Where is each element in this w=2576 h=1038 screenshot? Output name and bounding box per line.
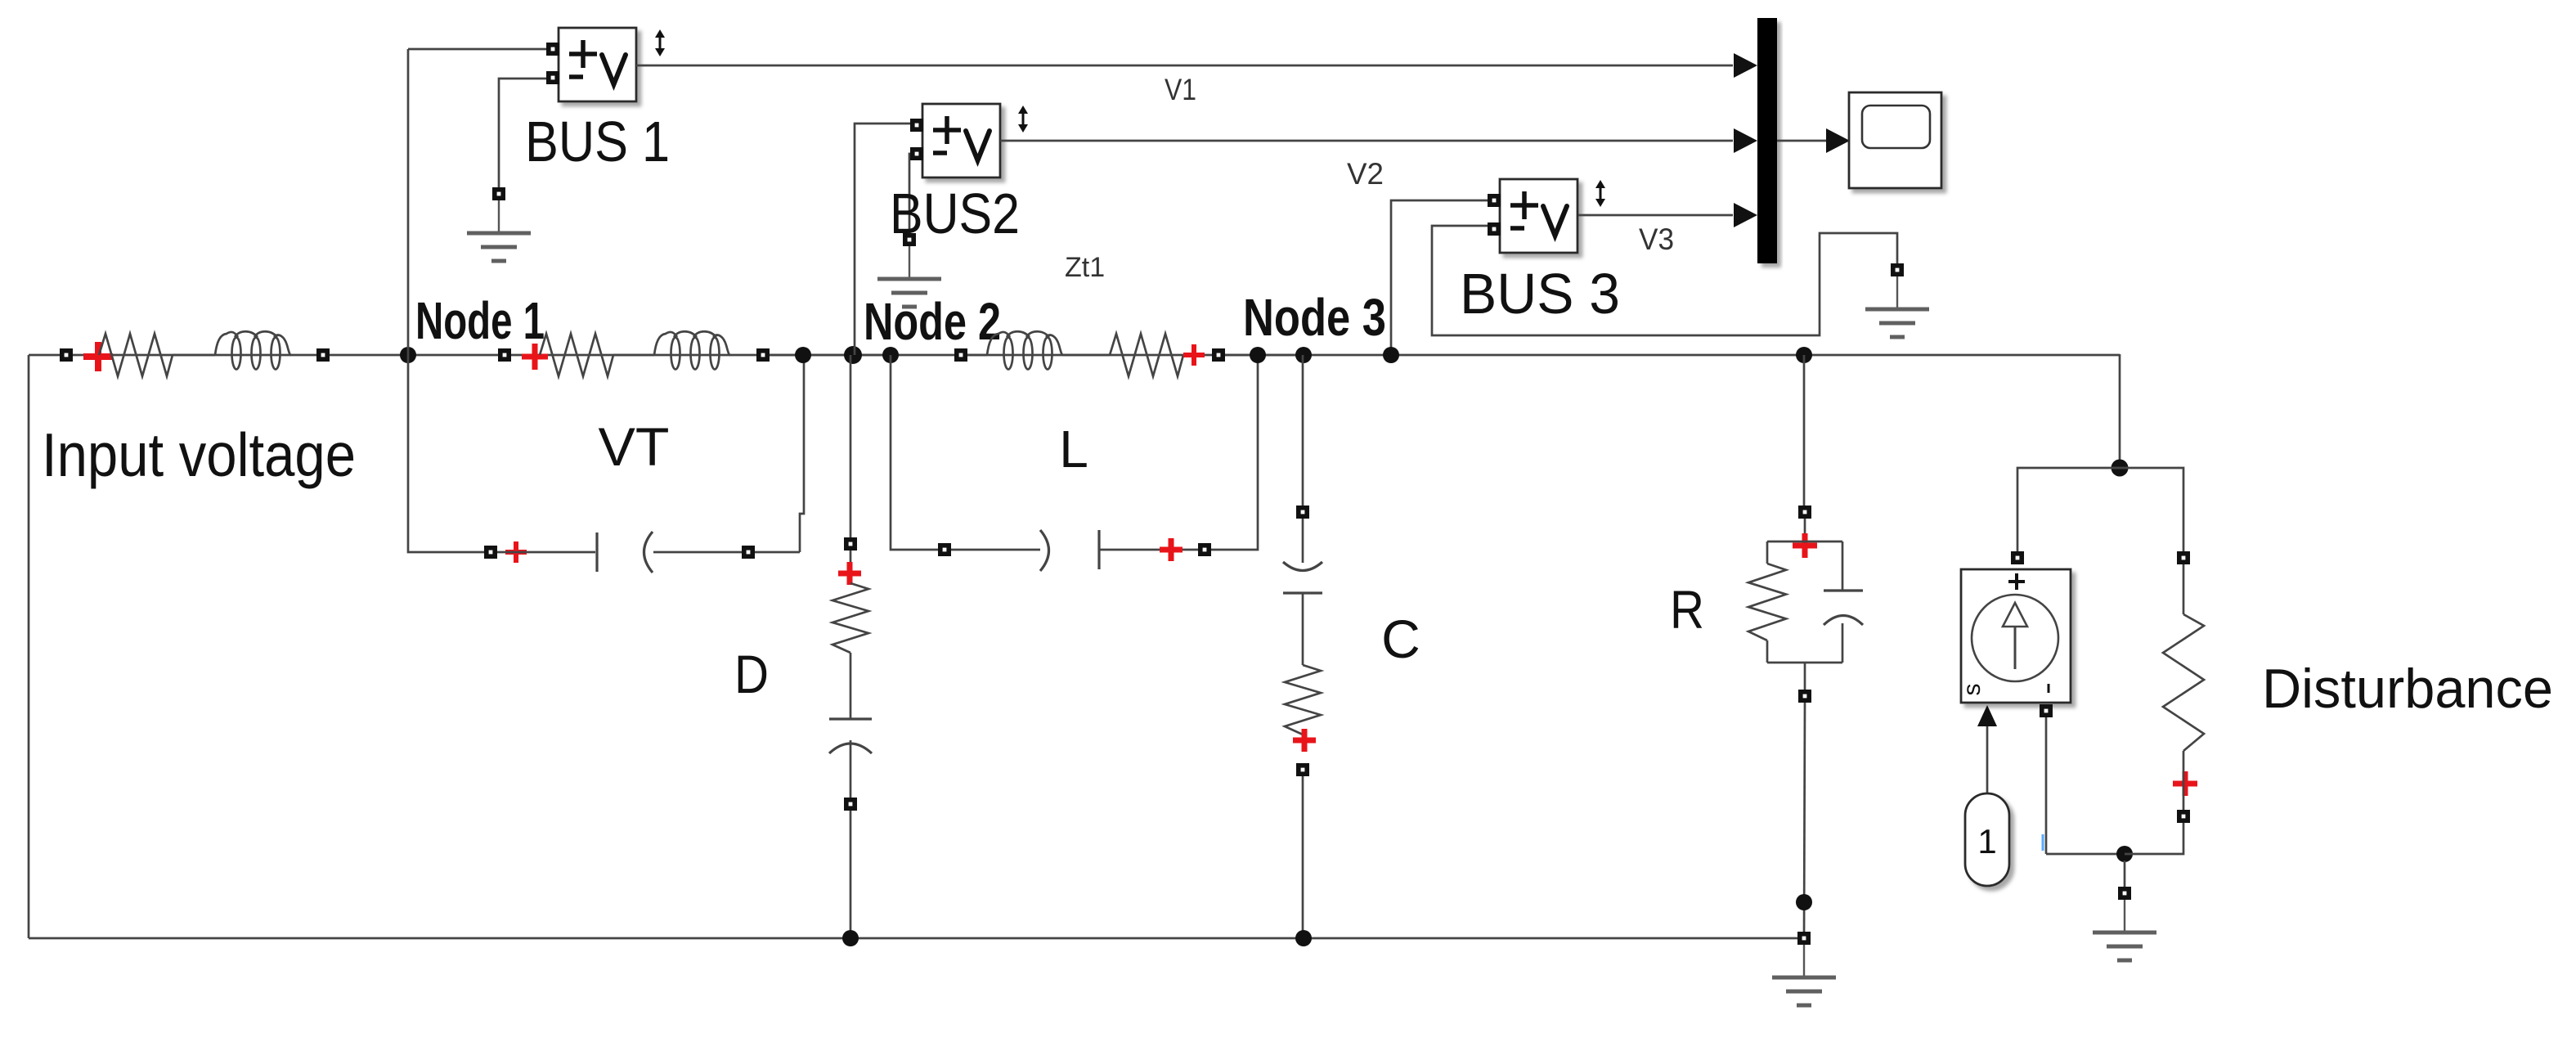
- wire BUS3 plus: [1391, 200, 1488, 355]
- svg-text:Node 1: Node 1: [415, 291, 545, 350]
- polarity + R: [1793, 533, 1817, 558]
- svg-text:Input voltage: Input voltage: [42, 420, 356, 489]
- svg-text:s: s: [1959, 684, 1986, 696]
- svg-text:V2: V2: [1347, 157, 1384, 191]
- resistor D: [832, 583, 868, 653]
- wire to disturbance top: [2120, 468, 2183, 551]
- label Node 2: [864, 292, 1001, 351]
- wire node1 vertical: [407, 49, 410, 355]
- wire left return: [28, 355, 30, 938]
- label BUS 3: [1460, 262, 1620, 326]
- wire bottom return: [29, 937, 1797, 940]
- wire D mid: [850, 653, 852, 719]
- wire VT lower left: [408, 355, 484, 552]
- wire disturbance lower lead: [2183, 751, 2185, 810]
- wire VT lower mid: [497, 551, 595, 554]
- port VT series right: [756, 348, 770, 362]
- inductor L series: [987, 331, 1063, 369]
- wire R vertical top: [1803, 355, 1806, 506]
- R block left lead: [1766, 541, 1769, 564]
- inductor VT series: [654, 331, 730, 369]
- wire BUS1 plus: [408, 48, 547, 51]
- node 1 junction: [400, 347, 416, 363]
- node input left port: [60, 348, 73, 362]
- svg-text:Node 2: Node 2: [864, 292, 1001, 351]
- label R: [1670, 579, 1704, 640]
- svg-text:1: 1: [1977, 822, 1996, 861]
- node R bottom junction: [1796, 894, 1812, 910]
- capacitor R curved plate: [1824, 616, 1863, 626]
- port C bottom: [1296, 763, 1309, 776]
- svg-text:V3: V3: [1639, 222, 1674, 256]
- wire disturbance upper lead: [2183, 564, 2185, 614]
- wire to source top: [2017, 468, 2120, 551]
- wire V2: [1000, 140, 1733, 142]
- label C: [1381, 609, 1420, 669]
- port C top: [1296, 506, 1309, 519]
- svg-text:Disturbance: Disturbance: [2262, 658, 2553, 720]
- ground R: [1772, 932, 1836, 1005]
- wire D vertical top: [850, 355, 852, 537]
- capacitor VT plate: [595, 532, 598, 572]
- constant 1 block: [1965, 793, 2009, 886]
- wire VT series mid: [613, 354, 654, 357]
- arrow into source s port: [1977, 705, 1997, 726]
- port L lower left: [938, 543, 951, 556]
- port R bottom: [1798, 690, 1811, 703]
- wire right drop to disturbance net: [2119, 354, 2121, 468]
- updown arrow BUS2: [1018, 106, 1028, 133]
- port VT lower right: [742, 546, 755, 559]
- resistor R: [1748, 564, 1786, 640]
- wire BUS1 minus: [499, 79, 547, 187]
- label V3: [1639, 222, 1674, 256]
- node 3 junction: [1295, 347, 1312, 363]
- wire BUS2 plus: [855, 124, 910, 355]
- scope block: [1849, 92, 1941, 188]
- polarity + VT lower: [505, 541, 527, 563]
- wire VT series to node2: [770, 354, 900, 357]
- node C bottom junction: [1295, 930, 1312, 946]
- wire VT lower riser: [800, 355, 804, 552]
- node L return junction: [1250, 347, 1266, 363]
- wire junction to ground: [2124, 861, 2126, 887]
- capacitor D curved plate: [829, 744, 872, 753]
- R block top bar: [1767, 541, 1842, 543]
- wire BUS2 minus: [909, 154, 910, 233]
- node disturbance top junction: [2112, 460, 2129, 477]
- capacitor L curved plate: [1040, 530, 1049, 571]
- port source top: [2011, 551, 2024, 564]
- wire D to bottom bus: [850, 811, 852, 938]
- resistor VT series: [540, 334, 613, 376]
- wire R below port: [1804, 519, 1806, 541]
- wire L lower riser: [1211, 355, 1258, 550]
- polarity + VT series: [522, 344, 548, 370]
- updown arrow BUS1: [655, 29, 665, 56]
- label L: [1059, 420, 1088, 479]
- polarity + C: [1293, 729, 1316, 752]
- port D top: [844, 537, 857, 550]
- ground BUS3: [1865, 263, 1929, 337]
- R block left lower lead: [1766, 640, 1769, 663]
- label BUS 1: [525, 110, 670, 173]
- selection artifact blue tick: [2042, 834, 2044, 851]
- svg-text:D: D: [734, 644, 769, 704]
- port L series right: [1212, 348, 1225, 362]
- polarity + L series: [1183, 344, 1205, 366]
- mux bar: [1757, 18, 1777, 263]
- wire R to ground: [1804, 703, 1805, 938]
- resistor L series: [1110, 334, 1183, 376]
- wire L series lead: [967, 354, 987, 357]
- port D bottom: [844, 798, 857, 811]
- capacitor C plate: [1283, 591, 1322, 594]
- resistor input branch: [99, 334, 173, 376]
- voltmeter U1 BUS 1: [546, 28, 636, 101]
- port source out: [2040, 704, 2053, 717]
- arrow into scope: [1826, 128, 1850, 153]
- ground BUS1: [467, 187, 531, 261]
- node D bottom junction: [842, 930, 859, 946]
- wire D lower: [850, 740, 852, 798]
- label Node 3: [1243, 288, 1386, 347]
- wire L series mid: [1063, 354, 1110, 357]
- port R top: [1798, 506, 1811, 519]
- arrow V1 into mux: [1734, 53, 1757, 78]
- label Node 1: [415, 291, 545, 350]
- arrow V3 into mux: [1734, 203, 1757, 227]
- wire L lower left: [891, 355, 938, 550]
- updown arrow BUS3: [1595, 180, 1605, 207]
- wire VT lower right: [653, 551, 800, 554]
- node VT return junction: [795, 347, 811, 363]
- polarity + disturbance: [2173, 771, 2197, 796]
- node input right port: [316, 348, 330, 362]
- node 2b junction: [882, 347, 899, 363]
- wire D below port: [850, 550, 852, 583]
- wire main bus top: [29, 354, 2120, 357]
- node 2 junction: [844, 346, 862, 364]
- wire R bottom stem: [1804, 663, 1806, 690]
- resistor C: [1285, 665, 1321, 735]
- wire C to bottom bus: [1302, 776, 1304, 938]
- wire L lower mid: [951, 549, 1040, 551]
- wire L lower right: [1099, 549, 1198, 551]
- voltmeter U2 BUS2: [910, 104, 1000, 177]
- wire source out to junction: [2046, 853, 2125, 856]
- wire L series to node3: [1225, 354, 1304, 357]
- port disturbance bottom: [2177, 810, 2190, 823]
- node BUS3 plus junction: [1383, 347, 1399, 363]
- wire BUS3 minus loop: [1432, 226, 1897, 335]
- polarity + D: [838, 562, 861, 585]
- wire C mid: [1302, 593, 1304, 665]
- port L lower right: [1198, 543, 1211, 556]
- wire constant to source: [1986, 726, 1989, 793]
- label BUS2: [890, 182, 1020, 245]
- arrow V2 into mux: [1734, 128, 1757, 153]
- polarity + input branch: [83, 342, 113, 371]
- wire V3: [1578, 214, 1733, 217]
- R block bottom bar: [1767, 662, 1842, 664]
- wire C vertical top: [1302, 355, 1304, 506]
- svg-text:V1: V1: [1165, 73, 1196, 106]
- wire junction to disturbance bottom: [2125, 823, 2183, 854]
- port VT lower left: [484, 546, 497, 559]
- inductor input branch: [215, 331, 291, 369]
- wire input branch mid: [173, 354, 215, 357]
- svg-text:Node 3: Node 3: [1243, 288, 1386, 347]
- wire source out down: [2045, 717, 2048, 854]
- label Disturbance: [2262, 658, 2553, 720]
- polarity + L lower: [1160, 538, 1183, 561]
- svg-text:R: R: [1670, 579, 1704, 640]
- capacitor R plate: [1824, 589, 1863, 591]
- capacitor VT curved plate: [644, 532, 653, 573]
- node R top junction: [1796, 347, 1812, 363]
- ground BUS2: [877, 233, 941, 307]
- label V2: [1347, 157, 1384, 191]
- svg-text:L: L: [1059, 420, 1088, 479]
- label Input voltage: [42, 420, 356, 489]
- node source bottom junction: [2116, 846, 2133, 862]
- port L series left: [954, 348, 967, 362]
- ground disturbance: [2093, 887, 2156, 960]
- svg-text:VT: VT: [599, 416, 670, 477]
- svg-text:BUS 3: BUS 3: [1460, 262, 1620, 326]
- voltmeter U3 BUS 3: [1488, 179, 1577, 253]
- port VT series left: [498, 348, 511, 362]
- capacitor C curved plate: [1283, 562, 1322, 571]
- current source U4: [1959, 569, 2071, 703]
- label VT: [599, 416, 670, 477]
- port disturbance top: [2177, 551, 2190, 564]
- resistor disturbance: [2163, 614, 2204, 751]
- svg-text:Zt1: Zt1: [1065, 252, 1105, 283]
- capacitor D plate: [829, 717, 872, 720]
- wire V1: [636, 65, 1733, 67]
- label D: [734, 644, 769, 704]
- wire mux to scope: [1777, 140, 1826, 142]
- wire C below port: [1302, 519, 1304, 563]
- capacitor L plate: [1097, 530, 1100, 569]
- svg-text:BUS 1: BUS 1: [525, 110, 670, 173]
- R block right lead: [1842, 541, 1844, 591]
- svg-text:C: C: [1381, 609, 1420, 669]
- R block right lower lead: [1842, 623, 1844, 663]
- label V1: [1165, 73, 1196, 106]
- label Zt1: [1065, 252, 1105, 283]
